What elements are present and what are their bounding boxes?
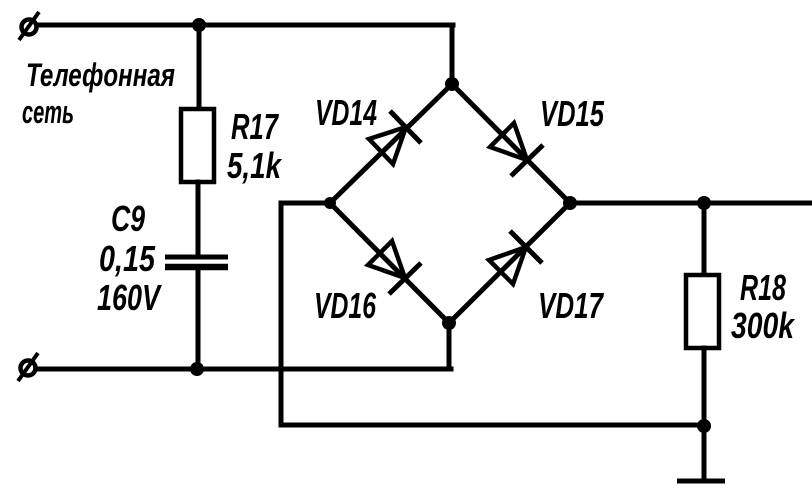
resistor R18 bbox=[686, 275, 719, 348]
wire from top rail down to R17 bbox=[197, 25, 202, 110]
node junction top (R17 tap) bbox=[192, 18, 206, 32]
node bridge left bbox=[324, 197, 336, 209]
svg-text:VD17: VD17 bbox=[538, 285, 604, 326]
svg-text:VD16: VD16 bbox=[314, 285, 377, 326]
label Телефонная сеть bbox=[22, 57, 175, 130]
wire R18 to lower bus junction bbox=[702, 348, 707, 426]
svg-text:Телефонная: Телефонная bbox=[26, 57, 175, 93]
svg-text:R17: R17 bbox=[231, 106, 279, 147]
label R17 value bbox=[227, 106, 283, 186]
diode VD14 bbox=[330, 84, 452, 203]
wire bottom rail bbox=[37, 367, 451, 372]
diode VD17 bbox=[449, 203, 570, 323]
diode VD15 bbox=[452, 84, 570, 203]
node bridge bottom bbox=[442, 316, 456, 330]
svg-text:VD15: VD15 bbox=[540, 93, 605, 134]
diode VD16 bbox=[330, 203, 449, 323]
wire top rail bbox=[37, 23, 453, 28]
wire top rail corner down to bridge top bbox=[450, 25, 455, 84]
ground bbox=[677, 479, 725, 484]
svg-text:R18: R18 bbox=[740, 267, 786, 308]
label R18 value bbox=[731, 267, 796, 346]
wire R17 to C9 bbox=[196, 182, 201, 256]
svg-text:C9: C9 bbox=[111, 198, 145, 239]
resistor R17 bbox=[181, 109, 214, 182]
wire bridge right node to output bbox=[570, 201, 812, 206]
wire C9 to bottom rail bbox=[196, 267, 201, 369]
svg-text:5,1k: 5,1k bbox=[227, 145, 283, 186]
node junction bottom (C9 tap) bbox=[190, 362, 204, 376]
node bridge right bbox=[563, 196, 577, 210]
terminal bottom-left bbox=[18, 353, 38, 381]
svg-text:160V: 160V bbox=[97, 277, 162, 318]
svg-text:0,15: 0,15 bbox=[99, 238, 156, 279]
capacitor C9 bbox=[165, 257, 228, 267]
terminal top-left bbox=[19, 12, 39, 40]
wire bridge bottom node to bottom rail bbox=[447, 323, 452, 369]
wire bridge left node to left bus bbox=[281, 203, 704, 425]
svg-text:VD14: VD14 bbox=[315, 92, 377, 133]
node bridge top bbox=[445, 77, 459, 91]
label C9 value bbox=[97, 198, 162, 318]
wire junction to ground bbox=[702, 426, 707, 480]
wire output node down to R18 bbox=[702, 203, 707, 276]
svg-text:300k: 300k bbox=[731, 305, 796, 346]
node junction output (R18 tap) bbox=[697, 196, 711, 210]
svg-text:сеть: сеть bbox=[22, 94, 74, 130]
node junction lower bus bbox=[697, 419, 711, 433]
